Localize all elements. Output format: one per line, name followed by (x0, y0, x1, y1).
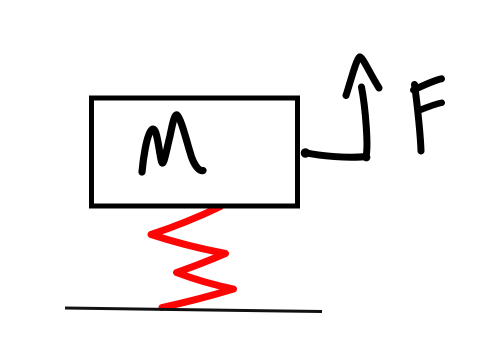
ground line (65, 308, 322, 312)
spring (151, 207, 234, 308)
label F top bar (414, 79, 442, 90)
force arrow lead line start blob (301, 148, 310, 157)
label F middle bar (419, 103, 442, 111)
arrowhead (346, 57, 379, 96)
label F stem (415, 85, 422, 152)
force arrow corner blob (362, 153, 370, 161)
label M (142, 115, 203, 172)
force arrow lead line and shaft (305, 87, 367, 157)
mass block (92, 98, 298, 206)
